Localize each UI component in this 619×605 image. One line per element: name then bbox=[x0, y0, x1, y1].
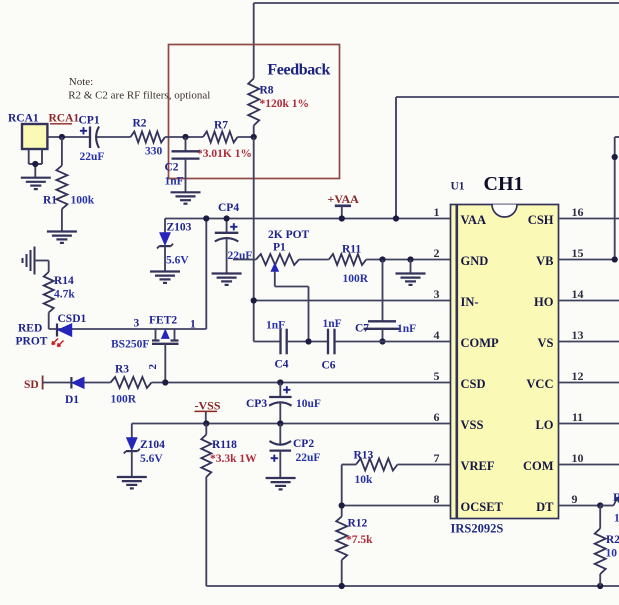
label R7 bbox=[214, 120, 228, 132]
value CP2 22uF bbox=[296, 452, 321, 464]
svg-text:3: 3 bbox=[434, 287, 440, 301]
svg-text:VB: VB bbox=[536, 254, 553, 268]
svg-text:2K POT: 2K POT bbox=[268, 229, 310, 241]
svg-text:R2: R2 bbox=[606, 534, 619, 546]
svg-text:C6: C6 bbox=[322, 360, 336, 372]
ground CP4 bbox=[212, 274, 242, 285]
svg-text:CSD: CSD bbox=[461, 377, 486, 391]
resistor R7 bbox=[203, 132, 238, 143]
svg-text:CP1: CP1 bbox=[79, 115, 100, 127]
junction DT bbox=[597, 502, 603, 508]
svg-text:R8: R8 bbox=[260, 85, 274, 97]
svg-text:CSH: CSH bbox=[528, 213, 554, 227]
wire feedback to IN- bbox=[253, 137, 255, 342]
svg-text:R2 & C2 are RF filters, option: R2 & C2 are RF filters, optional bbox=[68, 90, 210, 102]
junction R1 tap bbox=[59, 134, 65, 140]
junction -VSS bbox=[203, 420, 209, 426]
value R13 10k bbox=[355, 474, 374, 486]
svg-text:10: 10 bbox=[606, 548, 618, 560]
svg-text:10: 10 bbox=[572, 451, 584, 465]
capacitor C2 bbox=[172, 137, 200, 192]
junction OCSET bbox=[339, 502, 345, 508]
LED arrows red bbox=[52, 339, 64, 347]
junction RCA pin bbox=[32, 161, 38, 167]
junction VB pin bbox=[612, 256, 618, 262]
value R20 partial bbox=[606, 548, 618, 560]
LED CSD1 bbox=[57, 324, 72, 337]
wire R2 to R7 bbox=[165, 136, 203, 138]
svg-text:8: 8 bbox=[434, 492, 440, 506]
svg-text:C7: C7 bbox=[355, 323, 369, 335]
zener Z104 bbox=[124, 424, 140, 478]
capacitor C6 bbox=[328, 329, 335, 355]
label CP1 bbox=[79, 115, 100, 127]
junction CP3 top bbox=[277, 379, 283, 385]
label IRS2092S bbox=[451, 522, 504, 536]
ground Z104 bbox=[117, 477, 147, 488]
svg-text:VS: VS bbox=[538, 336, 554, 350]
junction FET-VAA bbox=[203, 215, 209, 221]
capacitor CP3 bbox=[269, 383, 292, 424]
svg-text:CP4: CP4 bbox=[218, 202, 239, 214]
svg-text:14: 14 bbox=[572, 287, 584, 301]
wire pin12 VCC bbox=[559, 382, 619, 384]
label R3 bbox=[115, 364, 129, 376]
svg-text:5.6V: 5.6V bbox=[140, 453, 163, 465]
value C7 1nF bbox=[397, 323, 416, 335]
label R2 bbox=[133, 118, 147, 130]
wire COMP left bbox=[254, 341, 280, 343]
resistor R1 bbox=[56, 137, 67, 232]
label C7 bbox=[355, 323, 369, 335]
capacitor CP4 bbox=[215, 219, 239, 274]
svg-text:1nF: 1nF bbox=[397, 323, 416, 335]
value Z104 5.6V bbox=[140, 453, 163, 465]
RCA jack RCA1 bbox=[22, 124, 47, 178]
svg-text:Note:: Note: bbox=[69, 76, 93, 88]
wire pin9 DT bbox=[559, 505, 601, 507]
svg-text:330: 330 bbox=[145, 146, 163, 158]
wire C4 to C6 bbox=[288, 341, 327, 343]
svg-text:OCSET: OCSET bbox=[461, 500, 504, 514]
junction FET drain bbox=[162, 379, 168, 385]
value CP1 22uF bbox=[80, 151, 105, 163]
label CP3 bbox=[246, 398, 267, 410]
wire C6 to IC bbox=[336, 341, 451, 343]
label R11 bbox=[342, 244, 361, 256]
svg-text:CP2: CP2 bbox=[293, 438, 314, 450]
value Z103 5.6V bbox=[166, 255, 189, 267]
power -VSS bbox=[195, 399, 221, 424]
wire P1 stub bbox=[233, 259, 256, 261]
value R11 100R bbox=[343, 273, 369, 285]
svg-text:100k: 100k bbox=[71, 195, 95, 207]
value R14 4.7k bbox=[54, 289, 75, 301]
svg-text:BS250F: BS250F bbox=[111, 339, 149, 351]
label FET2 bbox=[149, 315, 177, 327]
value R7 *3.01K 1% bbox=[197, 148, 252, 160]
svg-text:RCA1: RCA1 bbox=[8, 113, 39, 125]
svg-text:VAA: VAA bbox=[461, 213, 486, 227]
svg-text:*3.3k 1W: *3.3k 1W bbox=[210, 453, 257, 465]
svg-text:R3: R3 bbox=[115, 364, 129, 376]
svg-text:1: 1 bbox=[434, 205, 440, 219]
svg-text:4.7k: 4.7k bbox=[54, 289, 75, 301]
wire pin13 VS bbox=[559, 341, 619, 343]
junction C7 bottom bbox=[379, 338, 385, 344]
svg-text:22uF: 22uF bbox=[296, 452, 321, 464]
svg-text:1nF: 1nF bbox=[165, 176, 184, 188]
svg-text:C4: C4 bbox=[275, 359, 289, 371]
wire R13 to IC bbox=[398, 464, 451, 466]
svg-text:22uF: 22uF bbox=[80, 151, 105, 163]
note text bbox=[68, 76, 210, 102]
svg-text:3: 3 bbox=[134, 318, 140, 330]
svg-text:7: 7 bbox=[434, 451, 440, 465]
svg-text:2: 2 bbox=[434, 246, 440, 260]
svg-text:6: 6 bbox=[434, 410, 440, 424]
value R12 *7.5k bbox=[346, 534, 373, 546]
junction +VAA bbox=[339, 215, 345, 221]
svg-text:FET2: FET2 bbox=[149, 315, 177, 327]
svg-text:*7.5k: *7.5k bbox=[346, 534, 373, 546]
junction R12 bottom bbox=[339, 583, 345, 589]
label 2K POT bbox=[268, 229, 310, 241]
IC pin labels bbox=[461, 213, 555, 514]
junction wiper bbox=[305, 338, 311, 344]
svg-text:U1: U1 bbox=[451, 181, 465, 193]
value CP4 22uF bbox=[228, 250, 253, 262]
resistor R14 bbox=[35, 261, 54, 330]
capacitor C7 bbox=[364, 260, 400, 342]
value R2 330 bbox=[145, 146, 163, 158]
wire VB feed bbox=[615, 137, 619, 260]
svg-text:IRS2092S: IRS2092S bbox=[451, 522, 504, 536]
svg-text:C2: C2 bbox=[165, 162, 179, 174]
wire pin14 HO bbox=[559, 300, 619, 302]
svg-text:16: 16 bbox=[572, 205, 584, 219]
value R1 100k bbox=[71, 195, 95, 207]
resistor R20 bbox=[595, 506, 606, 587]
ground RCA bbox=[21, 178, 51, 189]
wire R13 corner bbox=[342, 465, 356, 517]
junction IN- node bbox=[251, 297, 257, 303]
junction feedback node bbox=[251, 134, 257, 140]
svg-text:R12: R12 bbox=[348, 518, 368, 530]
resistor R12 bbox=[336, 517, 347, 587]
svg-text:GND: GND bbox=[461, 254, 489, 268]
svg-text:COM: COM bbox=[523, 459, 554, 473]
wire R7 to node bbox=[238, 136, 254, 138]
diode D1 bbox=[71, 377, 84, 389]
wire pin11 LO bbox=[559, 423, 619, 425]
svg-text:11: 11 bbox=[572, 410, 583, 424]
junction CP4 tap bbox=[224, 215, 230, 221]
junction GND sym bbox=[407, 256, 413, 262]
svg-text:Z104: Z104 bbox=[140, 439, 165, 451]
label R1 bbox=[43, 195, 57, 207]
svg-text:100R: 100R bbox=[111, 394, 137, 406]
wire RCA to CP1 bbox=[47, 136, 90, 138]
svg-text:10k: 10k bbox=[355, 474, 374, 486]
wire feedback top rail bbox=[254, 3, 619, 79]
svg-text:VREF: VREF bbox=[461, 459, 495, 473]
label R14 bbox=[54, 275, 74, 287]
junction VAA feed bbox=[393, 215, 399, 221]
svg-text:IN-: IN- bbox=[461, 295, 479, 309]
label P1 bbox=[273, 242, 286, 254]
svg-text:RCA1: RCA1 bbox=[49, 113, 80, 125]
label R13 bbox=[354, 450, 374, 462]
wire D1 to R3 bbox=[84, 382, 111, 384]
power +VAA bbox=[328, 192, 360, 219]
label CSD1 bbox=[58, 313, 87, 325]
svg-text:PROT: PROT bbox=[16, 336, 48, 348]
transistor FET2 bbox=[152, 329, 179, 383]
svg-text:100R: 100R bbox=[343, 273, 369, 285]
junction VB node bbox=[612, 154, 618, 160]
value FET2 BS250F bbox=[111, 339, 149, 351]
svg-text:R13: R13 bbox=[354, 450, 374, 462]
ground Z103 bbox=[150, 272, 180, 283]
value R19 partial bbox=[614, 513, 619, 525]
junction CP2 top bbox=[277, 420, 283, 426]
svg-text:15: 15 bbox=[572, 246, 584, 260]
svg-text:Z103: Z103 bbox=[167, 222, 192, 234]
resistor R2 bbox=[131, 132, 166, 143]
zener Z103 bbox=[157, 219, 173, 272]
svg-text:2: 2 bbox=[147, 364, 159, 370]
port SD bbox=[24, 376, 43, 392]
svg-text:1nF: 1nF bbox=[323, 318, 342, 330]
svg-text:13: 13 bbox=[572, 328, 584, 342]
ground input earth bbox=[23, 247, 35, 275]
label Z103 bbox=[167, 222, 192, 234]
label FET2 pin3 bbox=[134, 318, 140, 330]
wire pin15 VB bbox=[559, 259, 615, 261]
svg-text:10uF: 10uF bbox=[296, 398, 321, 410]
svg-text:CSD1: CSD1 bbox=[58, 313, 87, 325]
svg-text:-VSS: -VSS bbox=[195, 399, 221, 413]
svg-text:COMP: COMP bbox=[461, 336, 500, 350]
svg-text:CH1: CH1 bbox=[484, 173, 524, 195]
wire bottom rail bbox=[206, 585, 619, 587]
wire top-right feed bbox=[396, 97, 619, 219]
resistor R3 bbox=[111, 377, 152, 388]
wire IN- line bbox=[254, 300, 451, 302]
svg-text:5.6V: 5.6V bbox=[166, 255, 189, 267]
ground pin2 bbox=[396, 260, 426, 285]
resistor R19 partial bbox=[600, 499, 619, 506]
value R118 *3.3k 1W bbox=[210, 453, 257, 465]
label FET2 pin1 bbox=[190, 319, 196, 331]
label R118 bbox=[212, 439, 237, 451]
label C2 bbox=[165, 162, 179, 174]
label RED PROT bbox=[16, 323, 48, 348]
value C4 1nF bbox=[266, 320, 285, 332]
wire OCSET bbox=[342, 505, 451, 507]
wire CP1 to R2 bbox=[97, 136, 131, 138]
svg-text:1nF: 1nF bbox=[266, 320, 285, 332]
svg-text:P1: P1 bbox=[273, 242, 286, 254]
label CP2 bbox=[293, 438, 314, 450]
label U1 bbox=[451, 181, 465, 193]
value C2 1nF bbox=[165, 176, 184, 188]
wire CSD line bbox=[152, 382, 451, 384]
ground R1 bbox=[47, 232, 77, 243]
svg-text:Feedback: Feedback bbox=[267, 62, 330, 79]
capacitor CP2 bbox=[270, 424, 292, 479]
wire FET to VAA bbox=[205, 219, 207, 330]
label Feedback bbox=[267, 62, 330, 79]
svg-text:R1: R1 bbox=[43, 195, 57, 207]
net label RCA1 red bbox=[49, 113, 80, 125]
wire pin10 COM bbox=[559, 464, 619, 466]
ground C2 bbox=[171, 192, 201, 203]
value C6 1nF bbox=[323, 318, 342, 330]
svg-text:HO: HO bbox=[534, 295, 554, 309]
svg-text:CP3: CP3 bbox=[246, 398, 267, 410]
label CP4 bbox=[218, 202, 239, 214]
svg-text:DT: DT bbox=[536, 500, 554, 514]
svg-text:VCC: VCC bbox=[526, 377, 553, 391]
svg-text:LO: LO bbox=[535, 418, 553, 432]
svg-text:9: 9 bbox=[572, 492, 578, 506]
junction R20 bottom bbox=[597, 583, 603, 589]
svg-text:SD: SD bbox=[24, 379, 39, 391]
svg-text:R11: R11 bbox=[342, 244, 361, 256]
wire LED gate bbox=[49, 328, 207, 330]
resistor R11 bbox=[329, 254, 366, 265]
svg-text:D1: D1 bbox=[65, 394, 79, 406]
label D1 bbox=[65, 394, 79, 406]
svg-text:R14: R14 bbox=[54, 275, 74, 287]
label C6 bbox=[322, 360, 336, 372]
label Z104 bbox=[140, 439, 165, 451]
wire pin16 CSH bbox=[559, 218, 619, 220]
wire VAA rail bbox=[165, 218, 451, 220]
wire R11 to IC bbox=[366, 259, 450, 261]
capacitor C4 bbox=[281, 329, 287, 355]
svg-text:1: 1 bbox=[190, 319, 196, 331]
svg-text:5: 5 bbox=[434, 369, 440, 383]
svg-text:R2: R2 bbox=[133, 118, 147, 130]
resistor R8 bbox=[248, 79, 259, 138]
label C4 bbox=[275, 359, 289, 371]
svg-text:R118: R118 bbox=[212, 439, 237, 451]
label R20 partial bbox=[606, 534, 619, 546]
potentiometer P1 bbox=[256, 254, 309, 342]
wire VSS rail bbox=[132, 423, 451, 425]
svg-text:10: 10 bbox=[614, 513, 619, 525]
svg-text:4: 4 bbox=[434, 328, 440, 342]
svg-text:*120k 1%: *120k 1% bbox=[260, 98, 310, 110]
value R8 *120k 1% bbox=[260, 98, 310, 110]
svg-text:R7: R7 bbox=[214, 120, 228, 132]
label CH1 bbox=[484, 173, 524, 195]
svg-text:+VAA: +VAA bbox=[328, 192, 360, 206]
svg-text:*3.01K 1%: *3.01K 1% bbox=[197, 148, 252, 160]
label R12 bbox=[348, 518, 368, 530]
wire SD to D1 bbox=[43, 382, 71, 384]
capacitor CP1 bbox=[80, 127, 99, 149]
svg-text:R1: R1 bbox=[613, 490, 619, 504]
feedback box bbox=[169, 45, 340, 179]
svg-text:12: 12 bbox=[572, 369, 584, 383]
IC U1 body bbox=[451, 205, 559, 519]
value CP3 10uF bbox=[296, 398, 321, 410]
label R19 partial bbox=[613, 490, 619, 504]
IC pin numbers bbox=[434, 205, 584, 506]
resistor R118 bbox=[201, 424, 211, 587]
svg-text:RED: RED bbox=[18, 323, 42, 335]
junction C2 tap bbox=[182, 134, 188, 140]
label R8 bbox=[260, 85, 274, 97]
ground CP2 bbox=[266, 478, 296, 489]
svg-text:VSS: VSS bbox=[461, 418, 484, 432]
value R3 100R bbox=[111, 394, 137, 406]
label RCA1 bbox=[8, 113, 39, 125]
wire P1 to R11 bbox=[299, 259, 329, 261]
label FET2 pin2 rotated bbox=[147, 364, 159, 370]
junction C7 top bbox=[379, 256, 385, 262]
resistor R13 bbox=[356, 459, 398, 471]
